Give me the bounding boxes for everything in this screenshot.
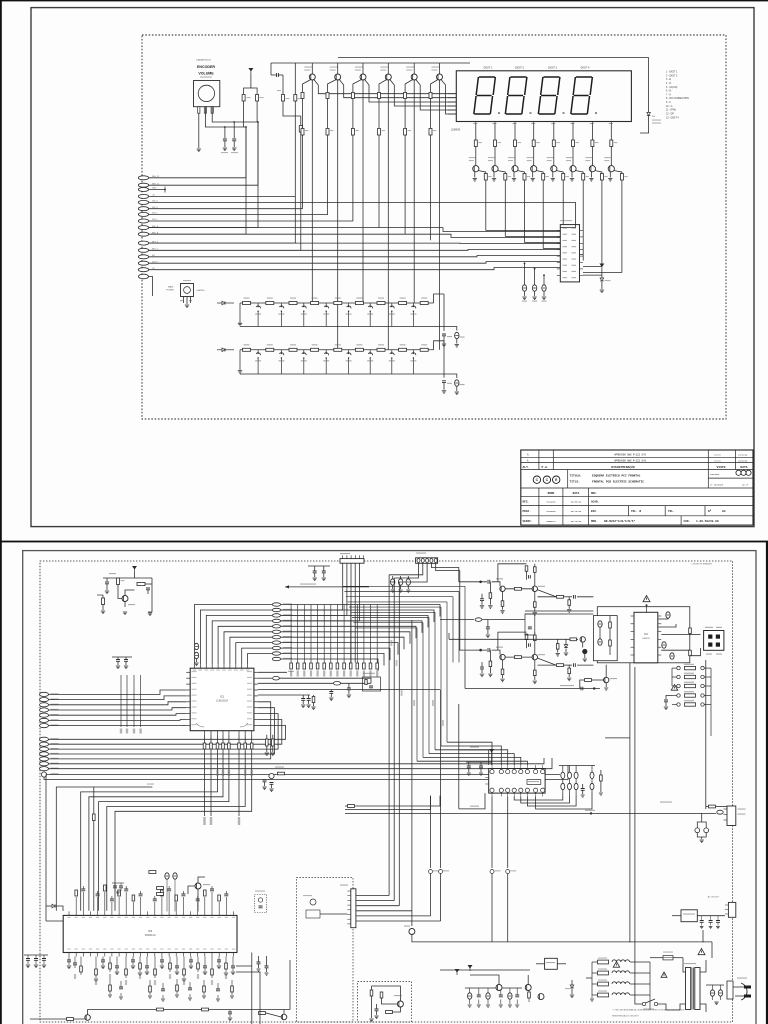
- resistor Rb3: [351, 93, 354, 99]
- pin CN9-3: [426, 559, 429, 563]
- label Qs4 type: [527, 157, 534, 158]
- wire seg col 1: [475, 125, 477, 140]
- capacitor Cf481.0: [479, 766, 483, 768]
- label Rc3: [355, 130, 359, 131]
- label Q6 type: [432, 67, 440, 68]
- wire Q2 collector: [337, 63, 339, 74]
- wire CH1 input: [459, 581, 487, 583]
- svg-text:Nº DESENHO: Nº DESENHO: [710, 484, 724, 487]
- CCE logo circles: [533, 476, 540, 483]
- svg-text:1 - DIGIT 1: 1 - DIGIT 1: [666, 72, 678, 74]
- transistor Q61: [281, 1014, 287, 1020]
- transistor Q4: [385, 74, 391, 80]
- resistor Rl8: [250, 743, 253, 749]
- label Rk7: [604, 176, 608, 177]
- wire seg net 8 down: [621, 180, 623, 273]
- audio channel CH1: [479, 581, 482, 584]
- encoder pin A wire: [198, 113, 200, 148]
- wire Q51 base: [118, 595, 122, 599]
- IC U1 body: [190, 668, 254, 731]
- wire Rs2 to Qs2: [494, 147, 496, 166]
- capacitor Ckbe: [455, 380, 459, 386]
- label Qs3 type: [508, 157, 515, 158]
- switch KB row2-S4: [325, 350, 327, 353]
- remote sensor bits: [310, 899, 316, 905]
- wire Rj1 right: [355, 796, 441, 806]
- wire Cp4 lead: [509, 988, 511, 993]
- svg-text:10 - G: 10 - G: [666, 106, 673, 108]
- resistor Rk3: [523, 174, 526, 181]
- capacitor Crail: [581, 687, 583, 691]
- resistor Rc3: [351, 129, 354, 136]
- resistor Rb19: [211, 969, 214, 975]
- resistor Ru15: [175, 895, 178, 901]
- capacitor Ce1: [522, 285, 526, 291]
- audio channel CH2: [479, 649, 482, 652]
- label part 5: [109, 974, 111, 979]
- resistor Rb17: [197, 963, 200, 969]
- wire Rs7 to Qs7: [591, 147, 593, 166]
- ground D10: [600, 290, 604, 293]
- wire U1 bot 1: [204, 735, 206, 743]
- wire rail up right: [289, 960, 291, 1010]
- resistor Rk5: [562, 174, 565, 181]
- connector pin P3-6: [40, 718, 49, 722]
- resistor Rq60: [67, 1018, 74, 1021]
- capacitor C59: [322, 571, 326, 573]
- switch KB row1-S3: [303, 303, 305, 306]
- IC U1 pin stubs: [194, 664, 196, 668]
- connector pin P4-6: [40, 762, 49, 766]
- resistor CH2-Rb: [489, 661, 492, 667]
- ground Cq400.6: [399, 590, 403, 592]
- resistor Rc6: [429, 129, 432, 136]
- wire preamp to amp 2: [525, 613, 593, 615]
- amp top pin: [646, 605, 648, 613]
- encoder pin C wire: [205, 107, 246, 127]
- RL row 4: [598, 993, 609, 997]
- capacitor C22: [232, 139, 236, 141]
- ground Rb21: [224, 973, 228, 976]
- ground Ckb: [442, 344, 446, 347]
- label C22: [231, 152, 238, 153]
- capacitor C57: [124, 660, 128, 662]
- wire Qs8 collector: [614, 171, 622, 174]
- wire CN1-12 run: [149, 249, 561, 252]
- ground Cp0: [468, 1005, 472, 1007]
- wire Rb1 to Rc: [302, 99, 304, 129]
- wire bank to cap: [666, 696, 672, 700]
- connector pin P2-6: [272, 630, 280, 633]
- wire Rj2 lead: [706, 806, 709, 808]
- ground P121: [119, 997, 123, 999]
- capacitor Cq400.6: [398, 579, 402, 585]
- resistor Rr150: [149, 986, 152, 992]
- transistor Q51: [122, 596, 128, 602]
- wire CN9-1: [394, 563, 418, 578]
- ground P218: [216, 999, 220, 1001]
- wire Ce2 lead: [534, 269, 536, 285]
- wire CH2 out right: [577, 664, 593, 666]
- resistor R70: [370, 990, 373, 996]
- ground Rfil: [599, 793, 603, 795]
- wire Rs6 to Qs6: [572, 147, 574, 166]
- ground Cb12: [160, 966, 164, 969]
- wire CN9-3: [399, 563, 427, 582]
- label SW1: [643, 1009, 654, 1010]
- wire Q61 base: [266, 1013, 281, 1017]
- wire pullup right top: [251, 88, 257, 94]
- capacitor Cb12: [160, 960, 164, 962]
- resistor R22: [299, 126, 302, 133]
- wire P3-7: [49, 724, 187, 726]
- wire Qs2 collector: [497, 171, 505, 174]
- ground C21: [223, 148, 227, 151]
- wire P4-8 long run: [47, 774, 560, 776]
- ground RL: [590, 999, 594, 1001]
- ground Cy: [116, 892, 120, 894]
- transformer T1: [686, 968, 691, 1010]
- capacitor Cb16: [189, 960, 193, 962]
- resistor R51: [117, 578, 120, 585]
- wire D9 down: [640, 116, 649, 134]
- wire CN2 to D10: [583, 274, 602, 276]
- wire CH2 input: [459, 649, 487, 651]
- capacitor Cq392.7: [391, 579, 395, 585]
- encoder ENC1 body: [194, 81, 220, 107]
- resistor Rs4: [532, 140, 535, 147]
- ground Rmt2: [556, 654, 560, 657]
- wire dec rail: [112, 656, 132, 658]
- remote dashed box: [296, 878, 353, 1022]
- CN11 pins: [724, 808, 728, 810]
- wire Rc5 down: [404, 135, 406, 234]
- wire Du1 l: [46, 905, 52, 907]
- resistor CH1-Rc2: [534, 567, 537, 573]
- wire Qs5 emitter: [552, 172, 554, 178]
- wire Rl2 net end: [210, 749, 212, 816]
- wire bus1: [281, 605, 440, 617]
- wire ENC_A net: [149, 233, 247, 235]
- page separator: [0, 541, 768, 543]
- ground reset: [148, 613, 152, 616]
- ground Cb16: [189, 966, 193, 969]
- resistor CH2-Ro: [557, 664, 564, 667]
- label Rs5: [556, 142, 560, 143]
- ground Cb0: [67, 966, 71, 969]
- digit 3 dp: [563, 112, 565, 114]
- wire reset vcc: [134, 572, 136, 578]
- resistor Rr2: [202, 1008, 209, 1011]
- wire Rl7 to U2: [107, 749, 245, 911]
- wire kb row bottom right: [434, 374, 457, 378]
- wire U2 right out1: [236, 965, 252, 967]
- IC U2 body: [63, 915, 237, 952]
- transistor Qs3: [512, 166, 518, 172]
- capacitor Cu12: [153, 899, 157, 901]
- regulator IC2 body: [181, 284, 194, 297]
- capacitor Cl2: [42, 959, 46, 961]
- wire P3-1: [49, 690, 187, 694]
- wire IC5 out: [557, 963, 566, 965]
- ground C22: [232, 148, 236, 151]
- capacitor CH1-Co: [574, 595, 576, 599]
- connector pin CN1-13: [138, 255, 148, 259]
- label C21: [221, 152, 228, 153]
- filament pin 562.8a: [561, 772, 565, 778]
- resistor Ry1: [149, 871, 156, 874]
- svg-text:DATA: DATA: [740, 466, 747, 469]
- wire pullup right down: [256, 101, 258, 122]
- wire IC4 cap rail: [466, 761, 492, 763]
- wire Qs8 emitter: [609, 172, 611, 178]
- page1 border: [31, 8, 754, 527]
- connector pin CN1-15: [138, 268, 148, 272]
- wire IC6 in: [672, 915, 681, 917]
- resistor Rb5: [109, 963, 112, 969]
- wire CH2 q2 e: [534, 660, 536, 670]
- wire seg col 7: [591, 125, 593, 140]
- wire nest IC4-3: [435, 750, 508, 765]
- capacitor Cb8: [131, 960, 135, 962]
- wire Q60 c: [88, 1010, 140, 1015]
- wire nest extra: [56, 787, 152, 911]
- wire loop3: [527, 796, 576, 807]
- connector pin CN1-10: [138, 232, 148, 236]
- wire Qs3 collector: [517, 171, 524, 174]
- resistor Rp1: [528, 992, 531, 998]
- transistor Q6: [437, 74, 443, 80]
- wire U1 bot 6: [238, 735, 240, 743]
- connector CN9: [416, 558, 438, 564]
- resistor KB row2-R5: [334, 348, 342, 351]
- svg-text:COD.: COD.: [684, 520, 691, 523]
- wire Cq lead: [392, 576, 394, 579]
- label Qs6 type: [566, 157, 573, 158]
- capacitor Cz2: [670, 653, 674, 659]
- wire RL left trunk: [591, 962, 593, 995]
- ground Cz5: [257, 969, 261, 971]
- svg-text:TITLE:: TITLE:: [570, 481, 581, 484]
- ground CH1 e2: [533, 613, 537, 616]
- ground Cb18: [203, 972, 207, 975]
- label Ra1: [290, 671, 292, 677]
- wire bus3: [281, 615, 428, 627]
- label Rc2: [330, 130, 334, 131]
- resistor KB row1-R7: [377, 302, 385, 305]
- wire bus6: [281, 632, 410, 644]
- wire FB3 right: [482, 619, 525, 621]
- capacitor Cb6: [115, 966, 119, 968]
- ground P232: [230, 996, 234, 998]
- connector pin P2-11: [272, 657, 280, 660]
- capacitor C58: [313, 571, 317, 573]
- capacitor Cn1: [329, 692, 333, 694]
- switch KB row1-S5: [348, 303, 350, 306]
- wire IC4 vcc: [491, 755, 493, 765]
- wire sensor out: [320, 913, 347, 915]
- diode D9: [647, 113, 651, 116]
- switch KB row2-S2: [280, 350, 282, 353]
- wire U1 r1: [258, 671, 287, 673]
- capacitor C53: [194, 643, 198, 649]
- capacitor Cu8: [124, 889, 128, 891]
- resistor Rb15: [183, 969, 186, 975]
- ground Cz6: [265, 973, 269, 975]
- VCC top rail page1: [271, 62, 470, 64]
- connector pin P3-2: [40, 698, 49, 702]
- wire Q6 base: [431, 80, 439, 93]
- resistor Rb1: [266, 739, 269, 746]
- wire SEG13 run: [149, 177, 247, 179]
- resistor Rb2: [326, 93, 329, 99]
- svg-text:TITULO:: TITULO:: [570, 475, 582, 478]
- svg-text:5 - C/(A.M): 5 - C/(A.M): [666, 86, 677, 89]
- jumper J2: [506, 870, 510, 874]
- transistor Qs7: [589, 166, 595, 172]
- capacitor Cr190: [188, 988, 192, 990]
- warning triangle pwr3: [661, 972, 667, 977]
- wire P3-2: [49, 696, 187, 700]
- connector pin P3-3: [40, 703, 49, 707]
- warning triangle pwr1: [613, 962, 620, 968]
- ground Cv1: [709, 927, 713, 929]
- label Rs8: [614, 142, 618, 143]
- label Rs4: [536, 142, 540, 143]
- wire Cp2 lead: [487, 988, 489, 993]
- svg-text:PROJ.: PROJ.: [523, 510, 532, 513]
- regulator IC5: [545, 958, 558, 969]
- wire nest IC4-4: [429, 754, 514, 765]
- ground Cb10: [145, 972, 149, 975]
- VCC arrow D10: [600, 264, 604, 270]
- capacitor Ct712.5: [710, 990, 714, 996]
- wire 7805 pin3: [190, 297, 192, 304]
- resistor Rb6: [429, 93, 432, 99]
- label nest end: [147, 784, 154, 785]
- label D10: [605, 280, 611, 281]
- wire Qs4 collector: [536, 171, 543, 174]
- svg-text:1.08.50249.08: 1.08.50249.08: [696, 520, 719, 523]
- wire R-STBY left: [580, 680, 585, 689]
- capacitor Cp2: [486, 993, 490, 999]
- wire Rj1 left: [345, 805, 348, 807]
- wire SEG12 run: [149, 184, 259, 186]
- wire CN13-3: [356, 905, 399, 907]
- ground Cb20: [217, 966, 221, 969]
- svg-text:IC2: IC2: [148, 929, 153, 933]
- wire Qs2 emitter: [493, 172, 495, 178]
- switch KB row1-S4: [325, 303, 327, 306]
- wire P2-9 to U1 pin: [242, 648, 273, 664]
- wire CN8-1: [281, 563, 343, 610]
- transistor Q3: [360, 74, 366, 80]
- connector pin P3-7: [40, 724, 49, 728]
- wire nest IC4-2: [441, 746, 501, 765]
- label Rs7: [595, 142, 599, 143]
- resistor R18: [256, 95, 259, 102]
- filament pin 576.1b: [574, 783, 578, 789]
- wire Rb5 to Rc: [404, 99, 406, 129]
- wire RL right trunk: [649, 962, 651, 1010]
- resistor R-STBY: [585, 679, 592, 682]
- wire U1 bot 7: [244, 735, 246, 743]
- label Rk8: [624, 176, 628, 177]
- wire CN8-5: [281, 563, 360, 621]
- svg-text:13 - DIGIT 4: 13 - DIGIT 4: [666, 117, 679, 119]
- connector pin CN1-16: [139, 274, 149, 279]
- resistor KB row2-R2: [266, 348, 274, 351]
- connector pin CN1-14: [138, 261, 148, 265]
- transistor CH2-Q2: [532, 654, 537, 659]
- trunk IC2 right down: [251, 953, 253, 1024]
- wire U2 right out2: [236, 972, 260, 1024]
- resistor Rb9: [139, 963, 142, 969]
- resistor Rs2: [494, 140, 497, 147]
- ground Cb22: [231, 972, 235, 975]
- wire Q5 base: [405, 80, 413, 93]
- transistor Q60: [85, 1015, 91, 1021]
- svg-text:WD Nº: WD Nº: [742, 484, 749, 487]
- wire CH2 q1-q2: [505, 656, 532, 658]
- capacitor Cb22: [231, 966, 235, 968]
- page2 edge right: [766, 542, 768, 1024]
- ground Cosc1: [262, 787, 266, 790]
- wire CH2 bias: [489, 650, 491, 661]
- resistor Rc4: [378, 129, 381, 136]
- resistor Rk8: [620, 174, 623, 181]
- 7-segment digit 2: [505, 77, 527, 114]
- ground Cn1: [329, 698, 333, 701]
- wire Q5 collector: [413, 63, 415, 74]
- transistor CH1-Q2: [532, 586, 537, 591]
- label Ra4: [310, 671, 312, 677]
- ground Dmt: [564, 653, 568, 656]
- resistor KB row1-R1: [243, 302, 251, 305]
- wire CN8-2: [281, 563, 347, 615]
- resistor bank row 1: [677, 666, 680, 669]
- wire left trunk down: [45, 775, 47, 922]
- wire CH2 fb top: [498, 632, 527, 650]
- svg-text:TOL. Ø: TOL. Ø: [631, 509, 641, 513]
- wire pwr rail: [440, 969, 530, 971]
- capacitor Cu4: [96, 894, 100, 896]
- capacitor Cv0: [700, 921, 704, 923]
- resistor KB row1-R6: [355, 302, 363, 305]
- capacitor Ce3: [542, 285, 546, 291]
- label Qs5 type: [547, 157, 554, 158]
- svg-text:PROVADA: PROVADA: [710, 473, 720, 476]
- wire Q6 collector: [439, 63, 441, 74]
- capacitor C56: [116, 660, 120, 662]
- resistor bank row 4: [677, 694, 680, 697]
- label Qs8 type: [604, 157, 611, 158]
- label Rk2: [508, 176, 512, 177]
- junction Ce3: [543, 274, 545, 276]
- switch KB row2-S3: [303, 350, 305, 353]
- ground C59: [322, 578, 326, 581]
- transistor Q2: [335, 74, 341, 80]
- resistor Rsp1: [689, 628, 692, 634]
- capacitor Cb20: [217, 960, 221, 962]
- RL row 1: [598, 960, 609, 964]
- anode rail page1: [338, 57, 649, 59]
- wire Q3 collector: [362, 63, 364, 74]
- VCC arrow IC4: [490, 749, 494, 755]
- wire Q1 emitter to display: [314, 80, 456, 94]
- transistor Qy: [195, 883, 201, 889]
- resistor Rl2: [210, 743, 213, 749]
